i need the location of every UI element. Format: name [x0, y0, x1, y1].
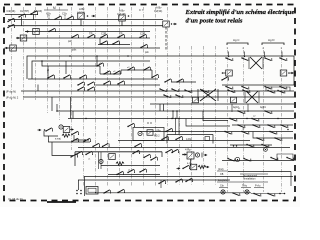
- lamp mid-left: [59, 125, 63, 129]
- contact boxrow b: [85, 151, 93, 155]
- coil MD cluster: [147, 130, 153, 136]
- bus wire mid6: [118, 140, 250, 142]
- junction dot bus118: [85, 118, 86, 119]
- contact PdN a: [159, 88, 167, 92]
- wire coil r1 stub: [222, 72, 226, 74]
- column line: [131, 7, 133, 186]
- contact row180 c: [185, 178, 193, 182]
- bus wire top5: [5, 47, 160, 49]
- contact row180 a: [158, 180, 166, 184]
- contact row142 a: [71, 138, 79, 142]
- contact bus4 a: [71, 34, 79, 38]
- coil TCOd: [190, 164, 197, 170]
- wire drop A1b: [48, 15, 50, 20]
- svg-text:A1b: A1b: [46, 12, 51, 16]
- bus wire top1: [8, 19, 163, 21]
- column line: [119, 7, 121, 186]
- wire bottom right: [279, 193, 281, 195]
- wire X left rail: [197, 89, 199, 101]
- contact PdN j: [201, 89, 209, 93]
- contact row124 a: [237, 124, 245, 128]
- contact row116 b: [251, 118, 259, 122]
- contact r1d: [279, 57, 287, 61]
- contact row157 c: [270, 157, 278, 161]
- ladder staircase wires: [60, 65, 100, 67]
- bus wire low3: [78, 179, 230, 181]
- lamp boxrow: [99, 159, 103, 163]
- wire drop below bus118 b: [178, 119, 180, 135]
- bus wire mid7: [78, 147, 290, 149]
- wire X r2 left rail: [244, 91, 246, 103]
- contact r2a: [225, 86, 233, 90]
- terminal stub 2: [244, 52, 246, 58]
- contact row136 a: [256, 137, 264, 141]
- junction dots row146: [233, 145, 234, 146]
- wire stub x173: [172, 111, 174, 119]
- wire step down right: [253, 132, 293, 139]
- contact ladder 3: [79, 75, 87, 79]
- bus wire top2: [8, 25, 163, 27]
- contact 80row c: [221, 77, 229, 81]
- contact row147 left c: [134, 143, 142, 147]
- svg-text:AgD1: AgD1: [260, 106, 266, 109]
- contact row168 left b: [171, 149, 179, 153]
- contact r2b: [241, 86, 249, 90]
- contact boxrow c: [132, 150, 140, 154]
- circled device row158: [235, 157, 239, 161]
- double contact row1 a: [77, 82, 85, 86]
- column line: [71, 7, 73, 150]
- wire loop inner: [32, 61, 150, 79]
- svg-text:C1b: C1b: [62, 12, 67, 16]
- contact 80row b: [176, 79, 184, 83]
- crossover X r2: [246, 91, 258, 103]
- relay group box: [167, 134, 213, 136]
- contact row131 b: [241, 131, 249, 135]
- junction dot a: [41, 60, 43, 62]
- svg-text:C2(34): C2(34): [7, 9, 16, 13]
- terminal stub 4: [281, 52, 283, 58]
- contact r1b: [241, 57, 249, 61]
- bus wire low2: [84, 176, 293, 178]
- contact r1a: [225, 57, 233, 61]
- svg-text:T-Au: T-Au: [242, 185, 248, 188]
- column line: [281, 50, 283, 192]
- coil A Bv C2(34) right top: [163, 21, 170, 27]
- column line: [215, 46, 217, 186]
- contact boxrow a: [75, 151, 83, 155]
- contact row173 b: [127, 169, 135, 173]
- lamp A Rp: [195, 153, 199, 157]
- bus wire mid1: [150, 103, 294, 105]
- svg-text:C f: C f: [139, 8, 143, 12]
- wire drop below bus118 a: [175, 119, 177, 135]
- svg-text:Ag C: Ag C: [233, 38, 239, 42]
- overline Ag D: [262, 43, 284, 45]
- lamp bottom 1: [221, 190, 225, 194]
- contact PdN i: [184, 89, 192, 93]
- bus wire top0: [5, 14, 38, 16]
- wire drop C2(7P): [21, 17, 23, 26]
- contact row142 b: [83, 138, 91, 142]
- coil boxrow: [109, 154, 116, 160]
- terminal stub 3: [264, 52, 266, 58]
- wire ARp drop: [190, 159, 192, 166]
- wire mid 85: [96, 84, 160, 86]
- wire step right: [203, 111, 228, 121]
- bus right 171: [228, 171, 291, 173]
- contact PdN e: [227, 89, 235, 93]
- contact row110 a: [237, 110, 245, 114]
- feed dot arrow ARp: [182, 154, 184, 156]
- wire drop mid top: [99, 38, 101, 45]
- table overline: [240, 173, 268, 175]
- contact on bus3: [48, 28, 56, 32]
- resistor mid-left: [62, 134, 70, 137]
- wire r1 return: [222, 56, 294, 85]
- coil left r1: [226, 70, 233, 76]
- contact A1(34): [30, 11, 38, 15]
- contact row143 a: [246, 144, 254, 148]
- contact lamps mid: [232, 192, 240, 196]
- column line: [11, 7, 13, 100]
- coil right r1: [280, 70, 287, 76]
- MD group box: [133, 128, 164, 141]
- contact boxrow d: [143, 154, 151, 158]
- coil on bus5: [10, 45, 17, 51]
- bus wire mid3: [68, 118, 294, 120]
- wire drop x70: [70, 97, 72, 119]
- dot after coil C2(1P): [128, 15, 130, 17]
- bus wire top4: [16, 37, 150, 39]
- contact bottom right b: [267, 193, 275, 197]
- junction dot row131: [287, 129, 288, 130]
- coil below PdN right: [231, 97, 237, 103]
- column line: [47, 7, 49, 113]
- column line: [35, 7, 37, 100]
- contact row131 c: [269, 131, 277, 135]
- contact above MD box: [127, 123, 135, 127]
- column line: [263, 50, 265, 192]
- border frame (dashed): [4, 5, 295, 201]
- contact bottom right a: [253, 193, 261, 197]
- contact PdN c: [163, 94, 171, 98]
- column line: [203, 46, 205, 186]
- contact boxrow e: [150, 157, 158, 161]
- wire vert x161: [160, 180, 162, 188]
- wire step mid-left 3: [52, 142, 73, 156]
- contact row147 left a: [92, 143, 100, 147]
- resistor boxrow: [116, 162, 124, 165]
- box bottom-mid right edge: [161, 152, 163, 157]
- contact row124 d: [280, 124, 288, 128]
- wire loop row154: [277, 154, 293, 161]
- wire stub x177: [176, 111, 178, 119]
- contact C2(7P): [18, 14, 26, 18]
- svg-text:P-Au: P-Au: [255, 185, 261, 188]
- wire loop PdN right: [266, 87, 290, 91]
- left edge cluster arrow: [70, 128, 74, 131]
- wire vert left low: [83, 177, 85, 197]
- bus wire mid5: [140, 131, 293, 133]
- crossover X r1: [250, 57, 262, 69]
- svg-text:d'un poste tout relais: d'un poste tout relais: [186, 17, 243, 24]
- svg-text:Cth: Cth: [220, 185, 224, 188]
- bus wire top3: [25, 31, 150, 33]
- coil A Bv A1(34): [78, 13, 85, 19]
- contact MD a: [165, 128, 173, 132]
- feed arrow bus4: [16, 37, 20, 40]
- wire drop x52: [51, 97, 53, 111]
- dot and feed arrow after coil A1: [87, 15, 89, 17]
- bus wire mid2: [57, 110, 294, 112]
- double contact row2 a: [77, 87, 85, 91]
- svg-text:MD.2: MD.2: [154, 136, 160, 138]
- wire drop C1b: [64, 15, 66, 20]
- svg-text:C2(34): C2(34): [154, 9, 162, 13]
- column line: [23, 7, 25, 100]
- feed arrow bus3: [26, 30, 30, 33]
- contact row158 a: [227, 158, 235, 162]
- svg-text:A Bv: A Bv: [79, 7, 85, 11]
- small box in group: [205, 137, 210, 141]
- contact C2(34): [7, 18, 15, 22]
- left edge dots: [84, 139, 85, 140]
- wire stub x163: [163, 104, 165, 111]
- contact C2P2: [139, 34, 147, 38]
- wire step: [42, 61, 60, 66]
- contact C1b: [66, 16, 74, 20]
- wire drop A1(34): [33, 14, 35, 20]
- wire drop agd1: [247, 104, 249, 112]
- contact ladder 4: [96, 63, 104, 67]
- wire X r2 right rail: [258, 91, 260, 103]
- coil on bus3: [33, 29, 40, 35]
- double contact row2 b: [87, 87, 95, 91]
- left edge step wire: [74, 135, 86, 140]
- wire coil right drop: [165, 27, 167, 50]
- contact TP2: [87, 34, 95, 38]
- svg-text:Extrait simplifié d'un schéma: Extrait simplifié d'un schéma électrique: [185, 9, 295, 16]
- contact row157 d: [286, 157, 294, 161]
- resistor TCOd: [198, 165, 206, 168]
- wire step right 2: [186, 119, 230, 127]
- overline Ag C: [227, 43, 248, 45]
- contact bottom a: [103, 190, 111, 194]
- contact row124 b: [252, 124, 260, 128]
- contact ladder 7: [143, 67, 151, 71]
- wire coil A1 to bus: [80, 19, 82, 26]
- contact row173 c: [139, 169, 147, 173]
- contact row116 a: [229, 118, 237, 122]
- junction dots bus118: [171, 118, 172, 119]
- terminal stub 1: [228, 52, 230, 58]
- contact 80row a: [164, 79, 172, 83]
- wire row44: [98, 44, 130, 46]
- feed arrow TCOd: [177, 167, 181, 170]
- contact PdN d: [175, 94, 183, 98]
- svg-text:D. M du D.: D. M du D.: [9, 197, 24, 201]
- contact mid85 b: [117, 81, 125, 85]
- contact row136 b: [274, 137, 282, 141]
- bus wire PdN1: [21, 90, 294, 92]
- contact r2d: [279, 86, 287, 90]
- contact row143 b: [261, 144, 269, 148]
- coil A Bv C2(1P): [119, 15, 126, 21]
- contact row110 b: [264, 110, 272, 114]
- push-button box inner: [88, 188, 96, 192]
- column line: [227, 50, 229, 192]
- column line: [83, 7, 85, 186]
- svg-text:(Inst): (Inst): [218, 168, 224, 171]
- contact row168 left a: [165, 149, 173, 153]
- lamp MD cluster: [138, 131, 142, 135]
- contact ladder 2: [63, 75, 71, 79]
- wire double vert b: [100, 152, 102, 169]
- table midline: [217, 181, 268, 183]
- push-button box outer: [86, 187, 98, 195]
- junction dots bottom-left: [76, 190, 78, 192]
- crossover X PdN: [200, 89, 216, 101]
- lamp row148: [264, 148, 268, 152]
- wire drop x57: [56, 104, 58, 111]
- bus wire PdN2: [23, 96, 294, 98]
- junction dot row116 a: [246, 118, 247, 119]
- contact ladder 6: [127, 67, 135, 71]
- column line: [95, 7, 97, 186]
- svg-text:A Bv: A Bv: [156, 6, 162, 10]
- contact row173 a: [116, 171, 124, 175]
- wire row174: [108, 174, 160, 176]
- feed arrow mid-left: [38, 129, 42, 132]
- wire double vert a: [98, 152, 100, 169]
- contact row44 b: [112, 41, 120, 45]
- wire drop x73: [72, 111, 74, 119]
- dot right r1: [288, 72, 290, 74]
- svg-text:Installation: Installation: [244, 178, 256, 181]
- wire X r1 right rail: [262, 57, 264, 69]
- contact ladder 5: [113, 71, 121, 75]
- contact row147 left b: [102, 143, 110, 147]
- contact PdN b: [171, 88, 179, 92]
- contact TP3: [117, 34, 125, 38]
- contact ladder 8: [151, 74, 159, 78]
- svg-text:s.maj: s.maj: [55, 139, 61, 141]
- contact ladder 4b: [103, 71, 111, 75]
- box bottom-mid top edge: [75, 151, 162, 153]
- column line: [191, 46, 193, 186]
- wire X right rail: [217, 89, 219, 101]
- wire drop x38: [37, 85, 39, 92]
- contact psb right: [140, 44, 148, 48]
- wire row160: [222, 160, 294, 162]
- column line: [155, 7, 157, 186]
- coil on bus4: [20, 35, 27, 41]
- contact PdN f: [242, 89, 250, 93]
- contact bus2 left: [7, 24, 15, 28]
- contact A1b: [54, 16, 62, 20]
- wire box row bottom: [101, 165, 160, 167]
- contact r1c: [264, 57, 272, 61]
- solid segment bottom border: [47, 201, 76, 203]
- svg-text:CB: CB: [220, 173, 224, 176]
- contact PdN g: [267, 90, 275, 94]
- bus wire mid4: [232, 124, 293, 126]
- dot arrow after right coil: [171, 23, 172, 24]
- contact row180 b: [175, 179, 183, 183]
- contact row131 a: [224, 131, 232, 135]
- coil mid-left: [63, 127, 70, 133]
- contact bottom b: [117, 189, 125, 193]
- svg-text:C2(1P): C2(1P): [117, 12, 126, 16]
- svg-text:A2Rp: A2Rp: [155, 130, 161, 133]
- column line: [179, 46, 181, 186]
- wire right drop 291: [290, 172, 292, 187]
- svg-text:C2(7P): C2(7P): [20, 9, 29, 13]
- svg-text:4 Rp: 4 Rp: [185, 148, 191, 152]
- contact row140 left a: [161, 136, 169, 140]
- column line: [167, 7, 169, 46]
- wire step mid-left 2: [48, 136, 90, 142]
- box bottom-mid left edge: [74, 152, 76, 166]
- wire stub x160: [159, 104, 161, 111]
- bus wire mid6b: [230, 144, 272, 146]
- column line: [59, 7, 61, 120]
- left edge cluster contact: [71, 131, 79, 135]
- wire step mid-left 1: [44, 131, 58, 136]
- svg-text:(P du N): (P du N): [6, 90, 16, 94]
- junction dot row116 b: [277, 118, 278, 119]
- wire bottom mid: [95, 192, 251, 194]
- contact mid-left: [45, 128, 53, 132]
- arrow TCOd out: [206, 166, 210, 169]
- contact TCOd: [182, 165, 190, 169]
- wire coil C2 to bus: [121, 21, 123, 26]
- coil A Rp: [187, 152, 194, 159]
- column line: [107, 7, 109, 186]
- svg-text:M: M: [53, 6, 56, 10]
- wire vert left low2: [77, 180, 79, 190]
- svg-text:A Bv: A Bv: [119, 9, 125, 13]
- contact left low: [70, 154, 78, 158]
- feed arrow bus5: [5, 47, 9, 50]
- wire 80row: [172, 81, 196, 83]
- contact mid85 a: [103, 81, 111, 85]
- column line: [167, 46, 169, 186]
- contact ladder 1: [47, 75, 55, 79]
- svg-text:(P du N) 2: (P du N) 2: [6, 96, 19, 100]
- contact row140 left b: [175, 136, 183, 140]
- contact ladder base wire: [28, 78, 158, 80]
- contact row158 b: [243, 158, 251, 162]
- lamp bottom 2: [245, 190, 249, 194]
- ticks MD: [147, 122, 149, 124]
- wire X r1 left rail: [248, 57, 250, 69]
- ticks ARp: [201, 153, 203, 158]
- junction dot b: [69, 55, 71, 57]
- wire drop agc2: [231, 104, 233, 112]
- svg-text:Ag D: Ag D: [268, 38, 274, 42]
- contact row44 a: [100, 41, 108, 45]
- coil below PdN left: [193, 97, 199, 103]
- column line: [143, 7, 145, 186]
- contact row124 c: [267, 124, 275, 128]
- contact PdN h: [277, 90, 285, 94]
- wire lamps: [251, 193, 285, 195]
- contact r2c: [264, 86, 272, 90]
- double contact row1 b: [87, 82, 95, 86]
- wire loop outer: [27, 56, 294, 79]
